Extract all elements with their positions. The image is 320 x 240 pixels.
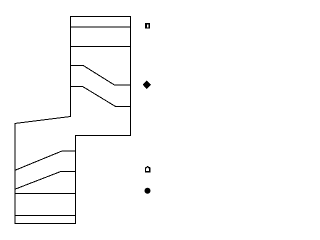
marker house outline symbol (145, 166, 151, 173)
sloped layer boundary S1 (71, 66, 131, 85)
marker filled diamond symbol (143, 81, 151, 90)
right column layer line y=26.8 (71, 26, 131, 28)
left column sloped boundary A (15, 151, 75, 170)
left column layer line y=215.5 (15, 215, 75, 217)
right column layer line y=46.3 (71, 45, 131, 47)
staircase column outline polygon (15, 17, 130, 224)
left column sloped boundary B (15, 172, 75, 190)
left column layer line y=193.4 (15, 192, 75, 194)
marker filled dot symbol (145, 188, 151, 194)
sloped layer boundary S2 (71, 87, 131, 107)
marker open ring symbol (145, 23, 150, 29)
